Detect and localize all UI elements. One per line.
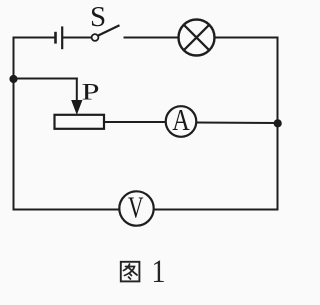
slider arrow P (wiper) — [72, 101, 82, 114]
wire: switch to lamp — [124, 37, 179, 39]
caption: figure number 1 — [152, 254, 166, 290]
svg-text:V: V — [128, 190, 144, 225]
voltmeter V — [119, 190, 153, 226]
wire: left vertical — [13, 37, 15, 210]
wire: rheostat to ammeter — [104, 121, 166, 123]
label S — [90, 1, 106, 33]
wire: bottom-left horizontal to voltmeter — [13, 209, 121, 211]
switch S (open) — [92, 25, 120, 41]
svg-text:S: S — [90, 1, 106, 33]
wire: lamp to top-right corner — [214, 37, 279, 39]
ammeter A — [166, 102, 197, 137]
wire: right vertical — [277, 37, 279, 210]
lamp (circle with X) — [179, 20, 215, 56]
svg-text:P: P — [82, 80, 100, 105]
wire: battery to switch — [62, 37, 91, 39]
caption: character 图 (drawn) — [121, 262, 140, 282]
node: right junction — [274, 119, 282, 127]
svg-text:A: A — [172, 102, 190, 137]
label P — [82, 80, 100, 105]
wire: ammeter to right junction — [196, 122, 277, 125]
svg-text:1: 1 — [152, 254, 166, 290]
node: left junction — [9, 75, 17, 83]
rheostat R (resistor box) — [55, 115, 105, 129]
wire: voltmeter to bottom-right corner — [154, 209, 279, 211]
battery (cell) — [56, 26, 63, 49]
wire: junction to slider corner — [14, 78, 78, 103]
wire: top-left horizontal to battery — [13, 37, 56, 39]
